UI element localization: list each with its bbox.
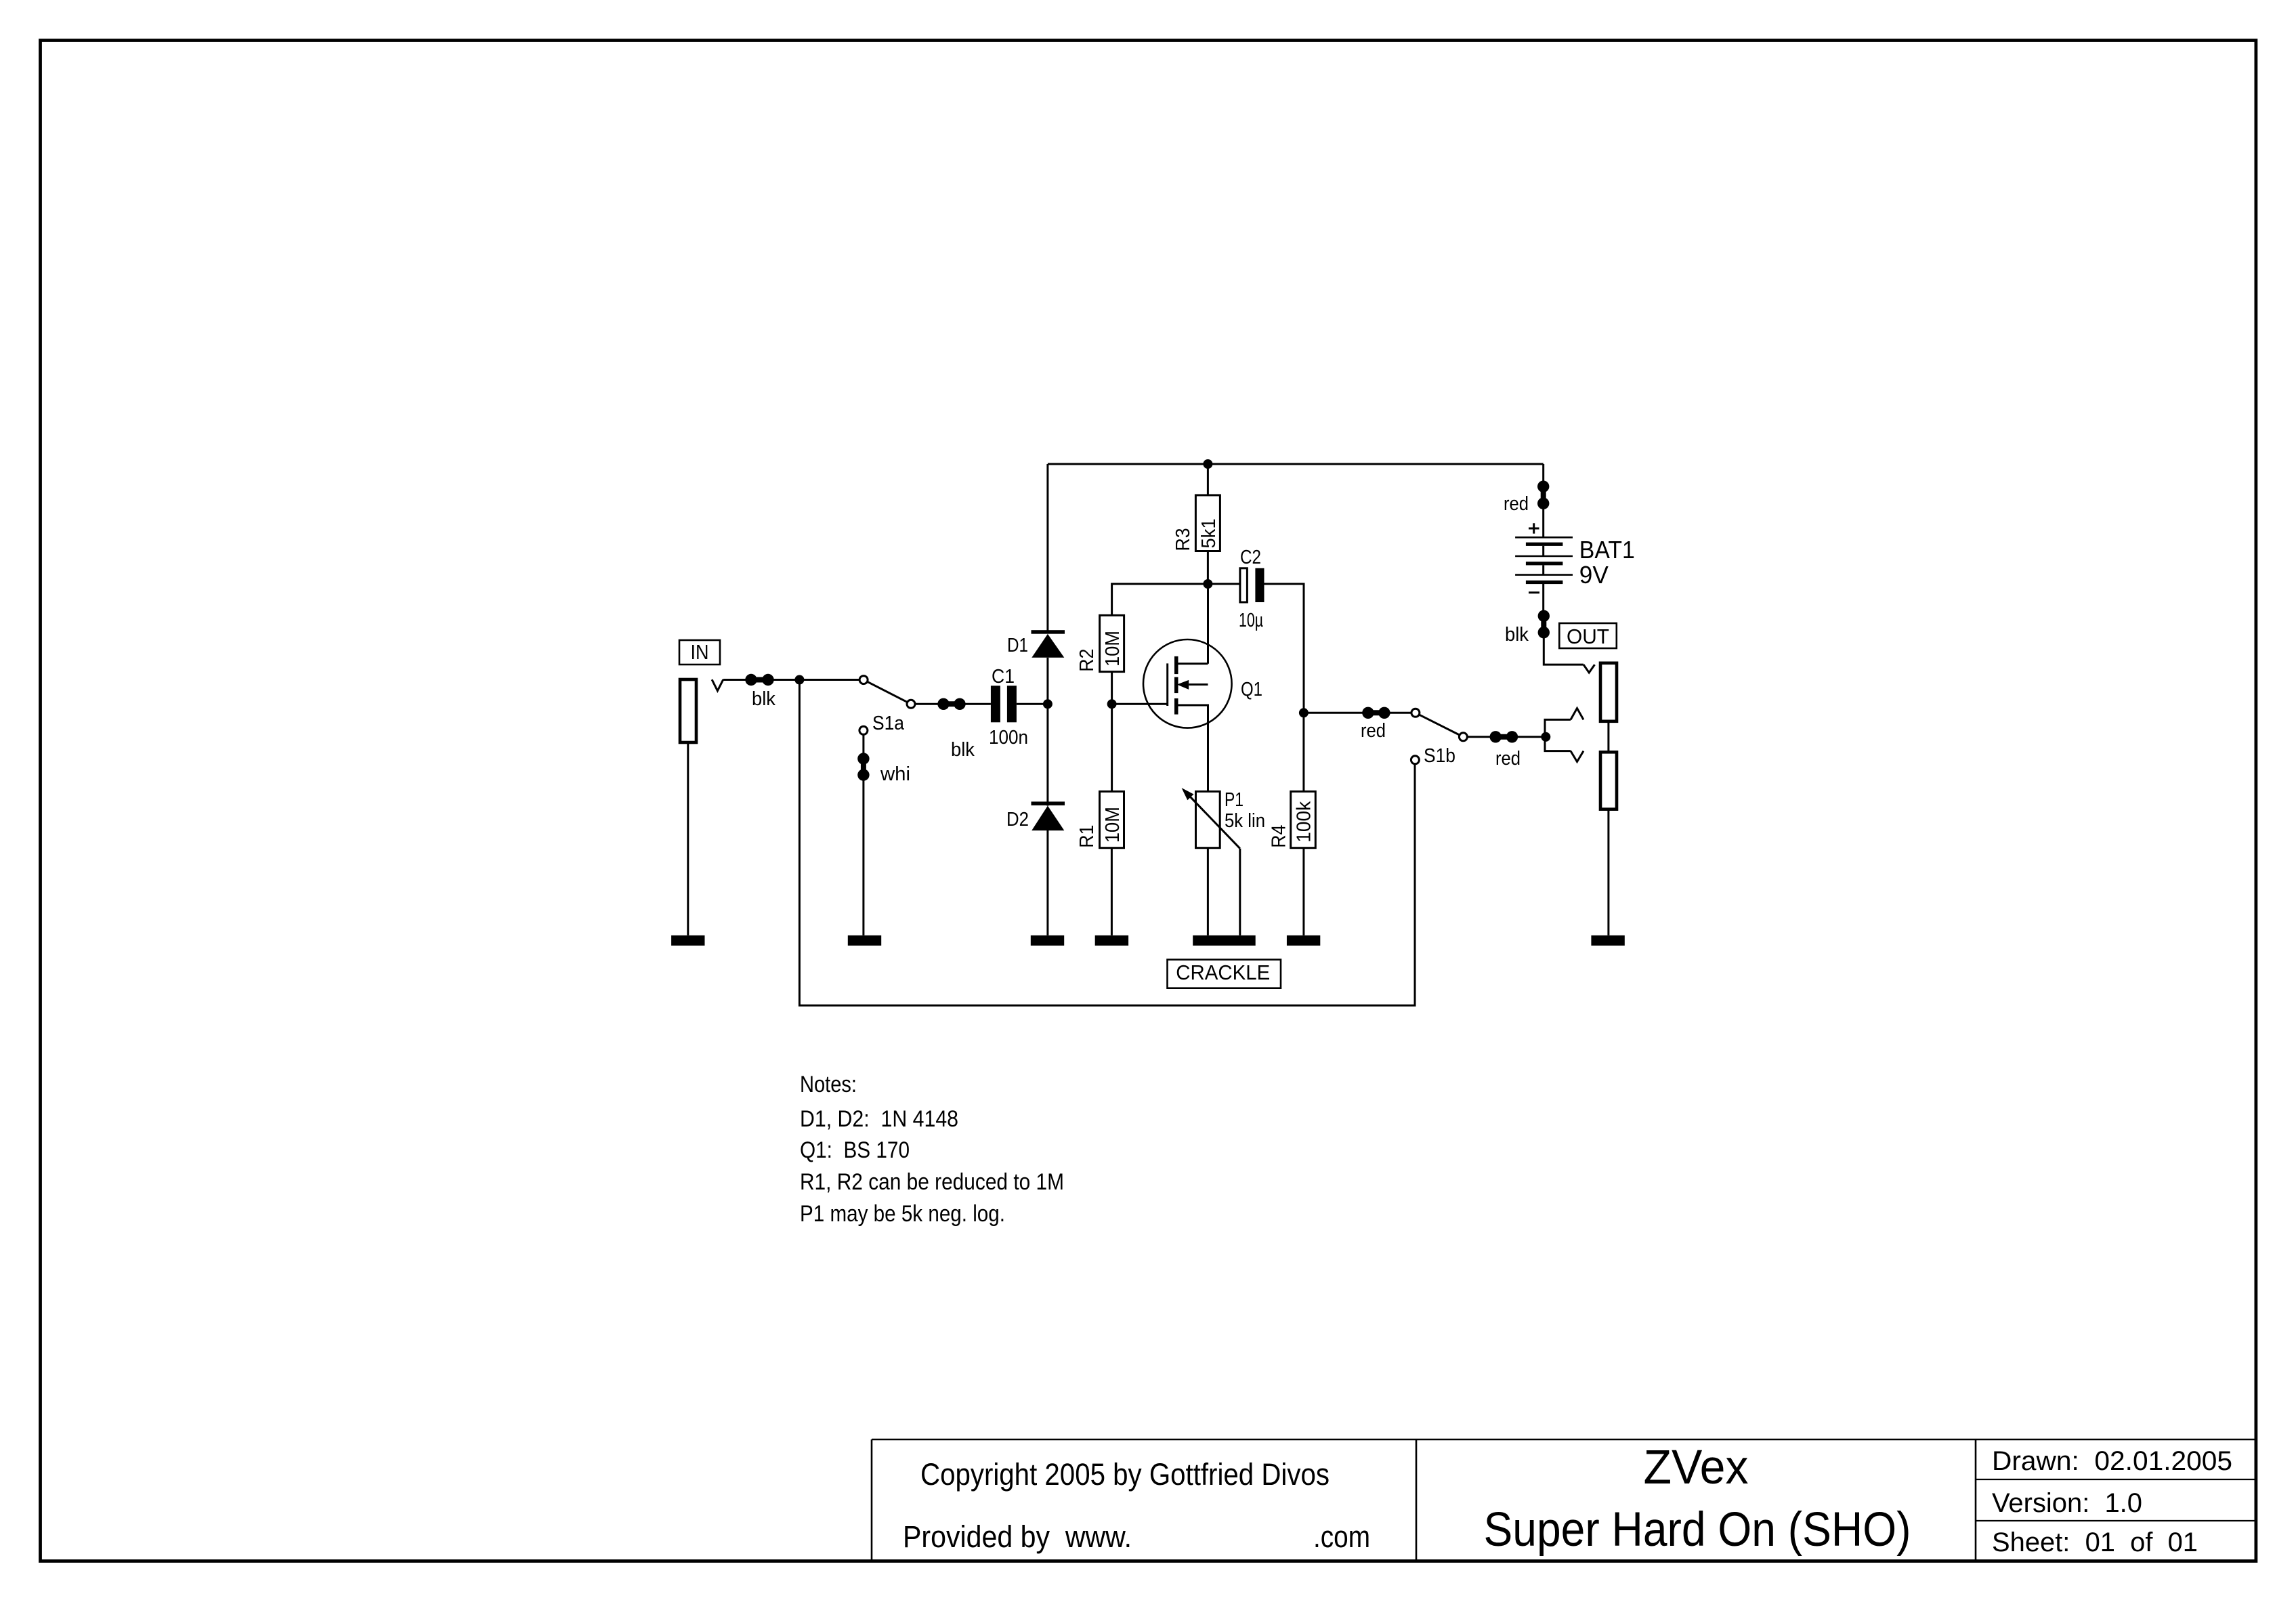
svg-text:ZVex: ZVex <box>1644 1441 1749 1494</box>
label blk (input) <box>752 688 775 710</box>
transistor Q1 substrate arrow <box>1177 680 1208 690</box>
wire battery minus to blk <box>1542 584 1544 616</box>
junction feedback node <box>1203 579 1212 589</box>
resistor R2 <box>1100 615 1124 671</box>
svg-text:D1, D2: 1N 4148: D1, D2: 1N 4148 <box>800 1106 958 1132</box>
wire blk to OUT sleeve <box>1544 633 1583 665</box>
ground S1a <box>848 935 881 946</box>
svg-text:S1b: S1b <box>1424 745 1455 767</box>
svg-text:blk: blk <box>951 739 975 761</box>
wire C2 to output node <box>1264 584 1304 713</box>
transistor Q1 channel dashes <box>1174 656 1178 715</box>
battery BAT1 plates <box>1515 537 1573 584</box>
title text copyright <box>920 1457 1330 1492</box>
IN label box <box>679 640 720 665</box>
wire R4 to ground <box>1302 848 1304 935</box>
resistor R3 <box>1195 495 1220 551</box>
wire D1 to gate node <box>1046 658 1048 704</box>
label red (S1b out) <box>1495 748 1521 770</box>
svg-text:red: red <box>1495 748 1521 770</box>
OUT label box <box>1559 623 1617 648</box>
svg-text:5k1: 5k1 <box>1198 519 1220 549</box>
wire P1 to ground <box>1207 848 1209 935</box>
wire output node to R4 <box>1302 713 1304 791</box>
potentiometer P1 body <box>1196 791 1220 847</box>
switch S1b throw 2 <box>1411 756 1419 764</box>
jack J2 OUT body link <box>1607 721 1609 753</box>
svg-text:D1: D1 <box>1007 635 1028 656</box>
svg-text:Version: 1.0: Version: 1.0 <box>1992 1488 2142 1518</box>
svg-text:Q1: BS 170: Q1: BS 170 <box>800 1137 910 1163</box>
wire S1b common to OUT <box>1467 736 1546 738</box>
svg-text:Sheet: 01 of 01: Sheet: 01 of 01 <box>1992 1528 2198 1557</box>
label R4 <box>1269 825 1290 848</box>
cable splice blk (after S1a) <box>937 698 965 710</box>
svg-text:blk: blk <box>1505 624 1529 646</box>
diode D1 <box>1032 630 1065 658</box>
label C1 <box>992 666 1015 688</box>
wire gate node to R1 <box>1111 704 1113 791</box>
wire C1 to gate node <box>1017 703 1048 705</box>
wire drain to feedback node <box>1207 584 1209 664</box>
label R3 <box>1172 528 1194 551</box>
OUT jack tip contact down <box>1571 751 1583 762</box>
svg-text:R1: R1 <box>1076 825 1098 848</box>
value 10M of R2 <box>1102 631 1124 667</box>
junction supply rail at R3 <box>1203 459 1212 469</box>
title text Drawn <box>1992 1446 2232 1476</box>
label S1b <box>1424 745 1455 767</box>
title text Sheet <box>1992 1528 2198 1557</box>
ground P1 (CRACKLE) <box>1193 935 1256 946</box>
label blk (after S1a) <box>951 739 975 761</box>
wire bypass loop <box>799 680 1415 1006</box>
cable splice blk (input) <box>745 674 773 686</box>
junction gate node at R2 <box>1107 699 1117 709</box>
jack J2 OUT body lower <box>1600 752 1617 809</box>
svg-text:Q1: Q1 <box>1241 679 1262 700</box>
resistor R4 <box>1291 791 1316 847</box>
capacitor C1 <box>991 686 1017 722</box>
wire R3 to supply rail <box>1207 464 1209 495</box>
wire S1a throw2 to ground <box>862 734 864 935</box>
wire D2 to ground <box>1046 830 1048 935</box>
svg-text:10M: 10M <box>1102 631 1124 667</box>
switch S1a common <box>907 700 915 708</box>
wire S1a to C1 <box>915 703 991 705</box>
transistor Q1 gate bar <box>1166 663 1168 706</box>
wire output node to S1b <box>1304 712 1411 714</box>
svg-text:Copyright 2005 by Gottfried Di: Copyright 2005 by Gottfried Divos <box>920 1457 1330 1492</box>
transistor Q1 drain path <box>1177 662 1208 665</box>
svg-text:P1: P1 <box>1225 789 1243 811</box>
svg-text:R2: R2 <box>1076 649 1098 672</box>
label BAT1 <box>1579 536 1635 564</box>
svg-text:9V: 9V <box>1579 561 1609 589</box>
svg-text:blk: blk <box>752 688 775 710</box>
title text Super Hard On (SHO) <box>1484 1503 1911 1557</box>
svg-text:Notes:: Notes: <box>800 1072 857 1097</box>
diode D2 <box>1032 801 1065 830</box>
jack J1 IN body <box>680 679 696 742</box>
switch S1b throw 1 <box>1411 709 1420 717</box>
ground D1 D2 <box>1031 935 1064 946</box>
title text Version <box>1992 1488 2142 1518</box>
wire supply rail to battery <box>1542 464 1544 537</box>
ground OUT jack <box>1591 935 1624 946</box>
wire OUT tip bracket upper <box>1545 719 1571 736</box>
title text ZVex <box>1644 1441 1749 1494</box>
label Q1 <box>1241 679 1262 700</box>
wire R1 to ground <box>1111 848 1113 935</box>
junction input/bypass node <box>794 675 804 685</box>
svg-text:100n: 100n <box>989 727 1028 749</box>
label 100n <box>989 727 1028 749</box>
svg-text:5k lin: 5k lin <box>1225 810 1265 832</box>
svg-text:P1 may be 5k neg. log.: P1 may be 5k neg. log. <box>800 1201 1005 1227</box>
svg-text:CRACKLE: CRACKLE <box>1176 961 1270 984</box>
label 9V <box>1579 561 1609 589</box>
label whi <box>880 763 910 785</box>
label blk (battery) <box>1505 624 1529 646</box>
ground R4 <box>1287 935 1320 946</box>
junction output node <box>1299 708 1309 717</box>
wire OUT jack to ground <box>1607 809 1609 935</box>
wire R2 to gate node <box>1111 672 1113 704</box>
switch S1a throw 1 <box>859 676 868 684</box>
label C2 <box>1240 547 1261 568</box>
title block outline <box>872 1439 2256 1560</box>
ground IN jack <box>671 935 704 946</box>
title block row dividers <box>1976 1479 2256 1521</box>
svg-text:red: red <box>1361 720 1386 742</box>
wire gate node to D2 <box>1046 704 1048 805</box>
transistor Q1 body circle <box>1143 639 1232 728</box>
cable splice red (S1b out) <box>1490 731 1518 742</box>
title text .com <box>1313 1519 1370 1554</box>
label D2 <box>1006 809 1029 830</box>
label red (battery) <box>1504 493 1529 515</box>
svg-text:C2: C2 <box>1240 547 1261 568</box>
wire supply rail down to D1 <box>1046 464 1048 633</box>
switch S1a lever <box>864 680 911 704</box>
svg-text:red: red <box>1504 493 1529 515</box>
label D1 <box>1007 635 1028 656</box>
label R2 <box>1076 649 1098 672</box>
battery BAT1 plus sign <box>1529 523 1539 533</box>
svg-text:S1a: S1a <box>872 713 905 734</box>
value 100k of R4 <box>1294 801 1315 842</box>
ground R1 <box>1095 935 1128 946</box>
title text provided by <box>903 1519 1132 1554</box>
svg-text:Super Hard On (SHO): Super Hard On (SHO) <box>1484 1503 1911 1557</box>
wire feedback node to R2 <box>1112 584 1208 615</box>
value 10M of R1 <box>1102 807 1124 843</box>
svg-text:Provided by www.: Provided by www. <box>903 1519 1132 1554</box>
junction OUT tip node <box>1541 732 1550 742</box>
svg-text:R1, R2 can be reduced to 1M: R1, R2 can be reduced to 1M <box>800 1169 1064 1195</box>
label R1 <box>1076 825 1098 848</box>
label P1 <box>1225 789 1243 811</box>
svg-text:R4: R4 <box>1269 825 1290 848</box>
svg-text:10µ: 10µ <box>1239 610 1263 631</box>
resistor R1 <box>1100 791 1124 847</box>
label 5k lin <box>1225 810 1265 832</box>
wire OUT tip bracket lower <box>1545 737 1571 751</box>
cable splice whi <box>857 753 869 780</box>
potentiometer P1 arrow <box>1182 788 1240 849</box>
svg-text:C1: C1 <box>992 666 1015 688</box>
svg-text:IN: IN <box>691 640 709 664</box>
jack J2 OUT body upper <box>1600 663 1617 721</box>
wire IN tip to S1a <box>723 679 860 681</box>
svg-text:D2: D2 <box>1006 809 1029 830</box>
cable splice red (battery) <box>1537 481 1549 509</box>
wire R3 to feedback node <box>1207 551 1209 585</box>
wire supply rail <box>1048 463 1544 465</box>
wire gate wire <box>1112 703 1168 705</box>
cable splice blk (battery) <box>1538 610 1550 639</box>
cable splice red (S1b in) <box>1362 707 1390 719</box>
jack J1 IN tip contact <box>712 679 723 691</box>
notes text <box>800 1072 1064 1227</box>
label 10µ <box>1239 610 1263 631</box>
svg-text:.com: .com <box>1313 1519 1370 1554</box>
battery BAT1 minus sign <box>1529 591 1539 593</box>
wire P1 wiper to ground <box>1239 849 1241 935</box>
capacitor C2 <box>1240 568 1264 602</box>
svg-text:BAT1: BAT1 <box>1579 536 1635 564</box>
OUT jack sleeve contact <box>1583 665 1595 673</box>
OUT jack tip contact up <box>1571 709 1583 720</box>
CRACKLE label box <box>1168 960 1281 988</box>
svg-text:OUT: OUT <box>1567 625 1609 648</box>
transistor Q1 source path <box>1177 705 1208 791</box>
label S1a <box>872 713 905 734</box>
value 5k1 of R3 <box>1198 519 1220 549</box>
svg-text:whi: whi <box>880 763 910 785</box>
svg-text:10M: 10M <box>1102 807 1124 843</box>
svg-text:100k: 100k <box>1294 801 1315 842</box>
switch S1a throw 2 <box>859 726 868 734</box>
switch S1b common <box>1459 733 1467 741</box>
switch S1b lever <box>1416 713 1464 737</box>
label red (S1b in) <box>1361 720 1386 742</box>
wire feedback node to C2 <box>1208 583 1240 585</box>
junction gate node at D branch <box>1043 699 1053 709</box>
wire IN jack to ground <box>687 742 689 935</box>
svg-text:R3: R3 <box>1172 528 1194 551</box>
svg-text:Drawn: 02.01.2005: Drawn: 02.01.2005 <box>1992 1446 2232 1476</box>
